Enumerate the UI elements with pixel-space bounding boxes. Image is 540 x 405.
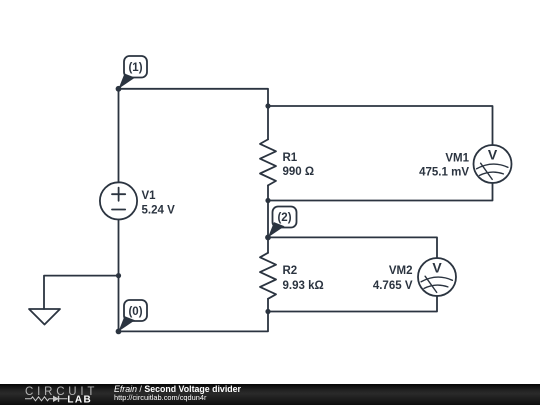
svg-text:R2: R2 [283, 265, 298, 277]
wire R1 top lead [267, 106, 269, 139]
voltage source V1 [100, 182, 137, 219]
svg-text:V1: V1 [142, 190, 157, 202]
svg-text:R1: R1 [283, 152, 298, 164]
wire VM1 top [268, 106, 493, 145]
node dot 0 [116, 329, 122, 335]
wire mid vertical [267, 201, 269, 238]
svg-text:V: V [432, 260, 442, 276]
footer bar [0, 384, 540, 405]
junction dot ground tee [116, 273, 121, 278]
wire ground tee [44, 276, 119, 309]
wire bottom horizontal [119, 312, 269, 332]
svg-text:9.93 kΩ: 9.93 kΩ [283, 280, 324, 292]
junction dot R1 top [265, 103, 270, 108]
voltmeter VM1 [474, 145, 512, 183]
node box 0 [124, 300, 147, 321]
junction dot R2 bottom [265, 309, 270, 314]
node pointer 0 [119, 316, 136, 331]
svg-text:4.765 V: 4.765 V [373, 280, 413, 292]
voltmeter VM2 [418, 258, 456, 296]
svg-text:VM1: VM1 [445, 153, 469, 165]
node box 1 [124, 56, 147, 78]
wire R2 bottom lead [267, 299, 269, 312]
svg-text:5.24 V: 5.24 V [142, 204, 176, 216]
resistor R2 [260, 253, 276, 299]
circuitlab logo [24, 384, 104, 405]
wire R2 top lead [267, 237, 269, 252]
svg-text:V: V [488, 147, 498, 163]
svg-text:(1): (1) [128, 62, 142, 74]
ground [29, 309, 60, 325]
wire VM2 top [268, 237, 437, 258]
svg-text:475.1 mV: 475.1 mV [419, 166, 469, 178]
svg-text:VM2: VM2 [389, 265, 413, 277]
resistor R1 [260, 139, 276, 185]
svg-text:(2): (2) [277, 212, 291, 224]
svg-text:990 Ω: 990 Ω [283, 166, 315, 178]
node pointer 1 [119, 74, 136, 89]
svg-text:(0): (0) [128, 306, 142, 318]
junction dot R1 bottom [265, 198, 270, 203]
node dot 1 [116, 86, 122, 92]
wire VM2 bottom [268, 296, 437, 312]
wire left vertical upper [118, 89, 120, 183]
node dot 2 [265, 235, 271, 241]
wire node1 top horizontal [119, 89, 269, 106]
node box 2 [273, 207, 297, 228]
svg-text:LAB: LAB [67, 395, 92, 405]
wire R1 bottom lead [267, 185, 269, 200]
footer text [114, 385, 241, 395]
node pointer 2 [268, 222, 285, 237]
wire left vertical lower [118, 220, 120, 332]
wire VM1 bottom [268, 183, 493, 201]
